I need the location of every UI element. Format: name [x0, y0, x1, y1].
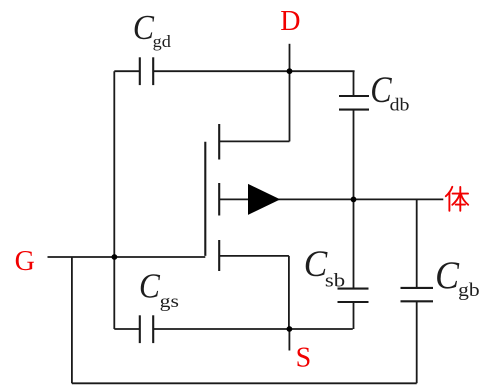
svg-text:gb: gb — [458, 281, 480, 301]
wire drain horizontal to channel — [219, 140, 289, 142]
capacitor C_gs plates — [140, 315, 153, 343]
wire source horizontal — [219, 255, 289, 257]
wire D stub and drain drop — [289, 44, 291, 142]
wire Csb lower lead — [353, 302, 355, 329]
svg-text:G: G — [15, 246, 35, 277]
transistor M1 channel body stroke — [218, 183, 220, 216]
wire Cgb lower lead — [416, 301, 418, 383]
wire body line — [219, 198, 443, 200]
svg-text:C: C — [139, 265, 160, 305]
capacitor C_db plates — [339, 96, 369, 110]
svg-text:gs: gs — [160, 291, 179, 311]
capacitor C_gb plates — [401, 288, 434, 301]
wire source drop to S rail — [288, 256, 290, 329]
transistor M1 channel source stroke — [218, 240, 220, 271]
svg-text:D: D — [280, 6, 300, 37]
junction dot node G — [112, 254, 118, 260]
svg-text:S: S — [296, 342, 312, 373]
label C_gb — [435, 254, 480, 301]
wire Cdb lower lead / Csb upper lead — [353, 110, 355, 289]
junction dot node body — [351, 197, 357, 203]
capacitor C_sb plates — [338, 289, 369, 302]
wire left box line (gate node vertical) — [113, 71, 115, 329]
wire S rail left segment — [114, 328, 140, 330]
svg-text:db: db — [390, 95, 410, 115]
svg-text:sb: sb — [325, 271, 345, 291]
wire S stub — [288, 329, 290, 351]
wire S rail right segment — [153, 328, 353, 330]
label C_sb — [304, 244, 345, 291]
wire top segment (Cgd right plate to Cdb top) — [153, 70, 354, 72]
wire outer loop left vertical — [71, 257, 73, 383]
transistor M1 channel drain stroke — [218, 124, 220, 160]
node label 体 (body) — [446, 187, 468, 211]
wire Cgb upper lead — [416, 199, 418, 288]
junction dot node D — [287, 68, 293, 74]
transistor M1 body arrow — [248, 184, 280, 215]
label C_db — [370, 70, 409, 114]
wire top-left segment (gate box top to Cgd left plate) — [114, 70, 140, 72]
label C_gs — [139, 265, 179, 311]
svg-text:gd: gd — [153, 32, 172, 51]
wire bottom rail — [72, 382, 417, 384]
junction dot node S — [287, 326, 293, 332]
capacitor C_gd plates — [140, 57, 153, 85]
svg-text:C: C — [435, 254, 460, 297]
wire G lead — [48, 256, 206, 258]
svg-text:C: C — [133, 9, 155, 47]
wire Cdb upper lead — [353, 71, 355, 96]
transistor M1 gate bar — [204, 142, 206, 256]
label C_gd — [133, 9, 172, 51]
